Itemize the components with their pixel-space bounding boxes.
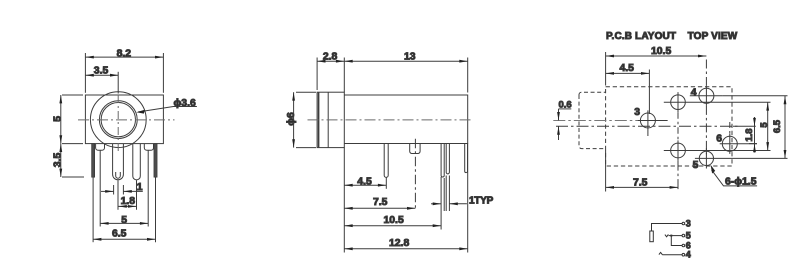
svg-text:ϕ6: ϕ6 [286, 112, 297, 126]
svg-text:5: 5 [693, 160, 699, 171]
svg-text:7.5: 7.5 [633, 178, 648, 189]
svg-text:3.5: 3.5 [52, 153, 63, 168]
svg-text:5: 5 [686, 231, 691, 241]
svg-text:1: 1 [137, 182, 143, 193]
svg-text:10.5: 10.5 [651, 46, 671, 57]
svg-text:13: 13 [404, 51, 416, 62]
svg-text:TOP VIEW: TOP VIEW [688, 31, 738, 42]
svg-text:12.8: 12.8 [389, 238, 409, 249]
svg-text:6.5: 6.5 [112, 229, 127, 240]
svg-text:5: 5 [121, 215, 127, 226]
svg-text:P.C.B LAYOUT: P.C.B LAYOUT [606, 31, 676, 42]
svg-text:6-ϕ1.5: 6-ϕ1.5 [725, 177, 757, 188]
svg-text:1.8: 1.8 [744, 128, 755, 141]
svg-text:4.5: 4.5 [357, 177, 372, 188]
svg-text:ϕ3.6: ϕ3.6 [174, 98, 196, 109]
svg-text:4: 4 [686, 250, 691, 260]
svg-text:6.5: 6.5 [772, 119, 783, 133]
svg-text:4: 4 [691, 87, 697, 98]
svg-text:3: 3 [686, 219, 691, 229]
svg-text:3.5: 3.5 [94, 66, 109, 77]
svg-text:1.8: 1.8 [121, 196, 136, 207]
svg-text:1TYP: 1TYP [469, 195, 494, 206]
svg-text:8.2: 8.2 [117, 48, 132, 59]
svg-text:6: 6 [716, 133, 722, 144]
svg-text:5: 5 [759, 122, 770, 128]
svg-text:7.5: 7.5 [373, 197, 388, 208]
svg-text:3: 3 [634, 107, 640, 118]
svg-text:2.8: 2.8 [323, 51, 338, 62]
svg-text:10.5: 10.5 [384, 215, 404, 226]
svg-text:5: 5 [52, 116, 63, 122]
svg-text:4.5: 4.5 [620, 63, 635, 74]
svg-text:0.6: 0.6 [559, 100, 572, 111]
